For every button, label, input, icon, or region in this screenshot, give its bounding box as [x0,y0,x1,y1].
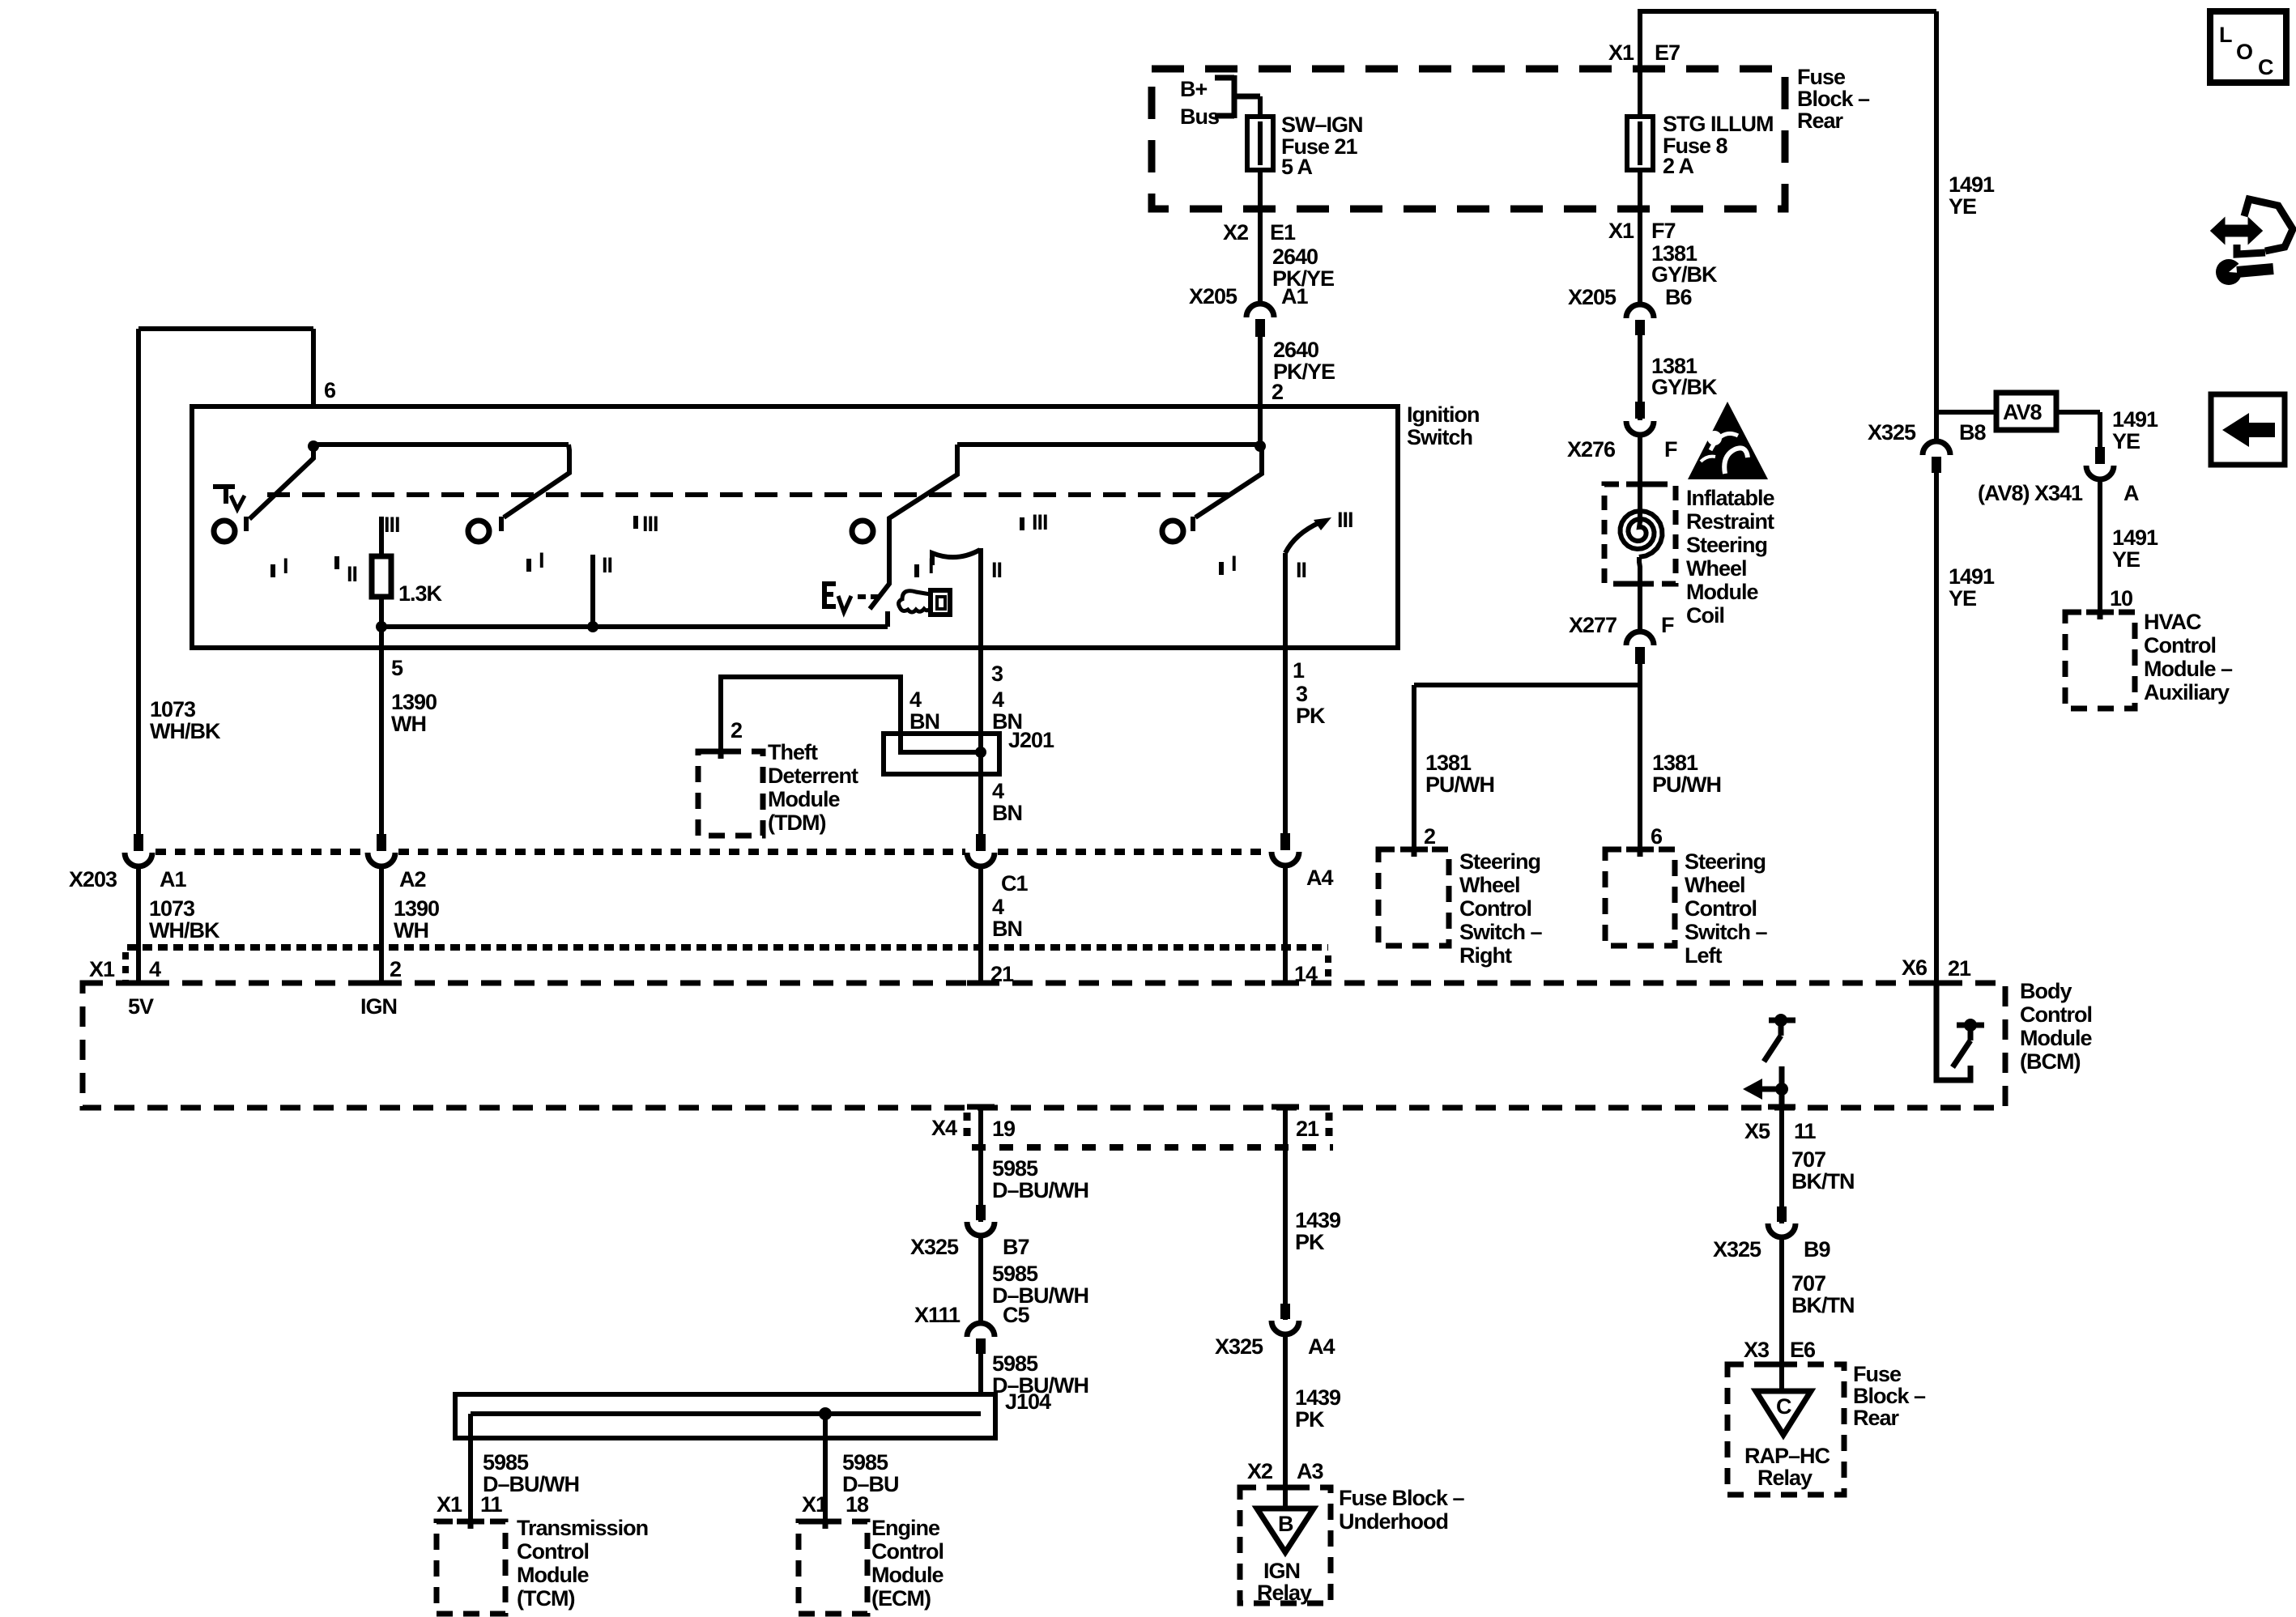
svg-text:(BCM): (BCM) [2020,1049,2080,1074]
steering wheel control switch right dashed box [1378,849,1449,946]
svg-text:X325: X325 [1868,420,1916,445]
svg-text:1390: 1390 [394,896,439,921]
connector (AV8) X341 A (stub + cup) [2086,447,2114,479]
wire entry ticks at module boxes [125,484,2114,1529]
svg-text:5: 5 [391,656,403,680]
svg-text:X1: X1 [1608,219,1634,243]
position marks sw3 [917,510,1048,582]
svg-text:WH: WH [394,918,428,943]
svg-text:Rear: Rear [1797,109,1844,133]
svg-text:2: 2 [390,957,401,981]
svg-text:X6: X6 [1902,955,1928,980]
svg-text:Relay: Relay [1757,1466,1813,1490]
svg-text:2: 2 [731,718,742,743]
connector X325 A4 (stub + cup) [1272,1304,1299,1334]
wire fuse21 to X205 [1258,170,1263,303]
contact circle sw2 [468,521,489,542]
svg-text:2 A: 2 A [1663,154,1694,178]
svg-text:IGN: IGN [360,994,397,1019]
svg-text:Engine: Engine [871,1516,940,1540]
label B+ Bus [1180,77,1219,129]
svg-text:6: 6 [1651,824,1663,849]
label 2640 PK/YE A1 [1189,245,1334,309]
connector X205 B6 (dome + stub) [1626,304,1654,335]
svg-text:X325: X325 [1713,1237,1761,1262]
svg-text:II: II [347,562,357,586]
wire TDM pin 2 branch [721,677,901,751]
connector X203 A2 (stub + cup) [368,834,395,866]
svg-text:C5: C5 [1003,1303,1029,1327]
svg-text:1491: 1491 [2112,407,2158,432]
LOC legend box [2210,11,2286,83]
svg-text:5985: 5985 [992,1262,1038,1286]
svg-text:5 A: 5 A [1281,155,1313,179]
svg-text:E1: E1 [1270,220,1296,245]
fuse STG ILLUM Fuse 8 [1627,69,1653,172]
label 5985 D-BU/WH (above J104) [992,1351,1088,1398]
label X1 11 (TCM) [437,1492,503,1517]
label X111 C5 [914,1303,1029,1327]
splice J201 [884,734,999,774]
svg-text:21: 21 [1948,956,1971,981]
label Theft Deterrent Module (TDM) [768,740,858,835]
svg-text:Control: Control [2144,633,2216,657]
svg-text:B6: B6 [1665,285,1692,309]
svg-text:II: II [991,558,1002,582]
wire A4 to BCM pin 14 [1283,864,1288,983]
svg-text:X4: X4 [931,1116,957,1140]
svg-text:J201: J201 [1008,728,1054,752]
svg-text:BK/TN: BK/TN [1791,1293,1855,1317]
label IGN Relay [1257,1559,1312,1605]
svg-text:C: C [1776,1394,1791,1419]
label 5985 D-BU/WH (below X4) [992,1156,1088,1202]
svg-text:Theft: Theft [768,740,818,764]
svg-text:(AV8) X341: (AV8) X341 [1978,481,2083,505]
svg-text:Auxiliary: Auxiliary [2144,680,2230,704]
label X276 F [1567,437,1677,462]
svg-text:3: 3 [991,662,1003,686]
svg-text:STG ILLUM: STG ILLUM [1663,112,1773,136]
svg-text:F: F [1661,613,1674,637]
svg-text:5985: 5985 [992,1351,1038,1376]
svg-text:II: II [602,553,612,577]
svg-text:1: 1 [1293,658,1305,683]
svg-text:Control: Control [1685,896,1757,921]
svg-text:Inflatable: Inflatable [1686,486,1775,510]
wire AV8 to X341 [2056,412,2100,447]
wire 1491 YE top feed from E7 riser to right edge riser [1638,11,1936,441]
svg-text:Module –: Module – [2144,657,2233,681]
label STG ILLUM Fuse 8 2 A [1663,112,1773,178]
svg-text:1491: 1491 [2112,526,2158,550]
svg-text:1491: 1491 [1949,564,1995,589]
svg-text:A1: A1 [160,867,186,891]
label Steering Wheel Control Switch - Left [1685,849,1768,968]
label Body Control Module (BCM) [2020,979,2092,1074]
fuse block underhood dashed box [1240,1487,1331,1603]
svg-text:III: III [1032,510,1048,534]
svg-text:Module: Module [2020,1026,2092,1050]
BCM internal switch (X5 output) [1743,1014,1795,1108]
svg-text:Transmission: Transmission [517,1516,648,1540]
connector X277 F (dome + stub) [1626,632,1654,664]
accessory glyph sw1 [213,487,245,509]
svg-text:Module: Module [517,1563,589,1587]
svg-text:1491: 1491 [1949,172,1995,197]
contact circle sw1 [214,521,235,542]
svg-text:Body: Body [2020,979,2072,1003]
svg-text:Steering: Steering [1459,849,1540,874]
svg-text:F7: F7 [1651,219,1676,243]
svg-text:1390: 1390 [391,690,437,714]
svg-text:Switch –: Switch – [1459,920,1543,944]
svg-text:Block –: Block – [1797,87,1870,111]
wire C1 to BCM pin 21 [978,866,983,983]
svg-text:D–BU/WH: D–BU/WH [992,1178,1088,1202]
svg-text:707: 707 [1791,1271,1825,1296]
svg-text:II: II [1296,558,1306,582]
connector row X1 dotted line [126,947,1328,985]
svg-text:Coil: Coil [1686,603,1724,628]
svg-text:Steering: Steering [1686,533,1767,557]
svg-text:Block –: Block – [1853,1384,1926,1408]
svg-text:Control: Control [2020,1002,2092,1027]
svg-text:X1: X1 [802,1492,828,1517]
svg-text:HVAC: HVAC [2144,610,2201,634]
fuse block rear (bottom) dashed box [1727,1364,1844,1495]
label Fuse Block - Rear (bottom) [1853,1362,1926,1430]
wire A1 to BCM pin 4 [136,866,141,983]
svg-text:Rear: Rear [1853,1406,1900,1430]
BCM internal switch (X6 feed) [1936,983,1984,1080]
ignition switch box [192,406,1398,648]
label 1381 PU/WH (right branch) [1425,751,1494,797]
svg-text:I: I [928,554,934,578]
label 1381 GY/BK (second) [1651,354,1718,399]
label 1390 WH (lower) [394,896,439,943]
wire C5 to J104 [978,1354,983,1397]
svg-text:GY/BK: GY/BK [1651,375,1718,399]
position marks sw1 [273,513,400,586]
svg-text:SW–IGN: SW–IGN [1281,113,1363,137]
svg-text:J104: J104 [1005,1389,1051,1414]
label 4 BN (TDM branch) [909,687,939,734]
resistor 1.3K [372,517,443,627]
svg-text:PU/WH: PU/WH [1425,772,1494,797]
connector X205 A1 (dome + stub) [1246,304,1274,337]
wire pin 3 to J201 [978,648,983,834]
label 1491 YE (HVAC) [2112,526,2158,572]
wire B+ bus to fuse 21 [1258,96,1263,118]
svg-text:E7: E7 [1655,40,1680,65]
label (AV8) X341 A [1978,481,2139,505]
fuse SW-IGN Fuse 21 [1247,117,1273,172]
wire switch feed rail 1 [313,442,569,447]
svg-text:Left: Left [1685,943,1723,968]
wire switch output rail [381,611,888,627]
svg-text:IGN: IGN [1263,1559,1300,1583]
label X205 B6 [1568,285,1692,309]
svg-text:4: 4 [992,895,1004,919]
HVAC control module auxiliary dashed box [2065,612,2135,709]
connector X111 C5 (dome + stub) [967,1323,995,1354]
svg-text:YE: YE [2112,547,2140,572]
svg-text:Control: Control [871,1539,944,1564]
wire branch to AV8 [1936,410,1996,415]
svg-text:O: O [2236,40,2252,64]
wire A2 to BCM pin 2 [379,866,384,983]
node junction 2640 feed [1254,440,1266,452]
svg-text:X111: X111 [914,1303,961,1327]
svg-text:WH/BK: WH/BK [149,918,220,943]
svg-text:X277: X277 [1569,613,1617,637]
svg-text:X3: X3 [1744,1338,1770,1362]
label X2 A3 [1247,1459,1323,1483]
svg-text:X325: X325 [1215,1334,1263,1359]
label 4 BN (below C1) [992,895,1022,941]
wire A4 to fuse block underhood [1283,1334,1288,1508]
svg-text:X203: X203 [69,867,117,891]
svg-text:F: F [1664,437,1677,462]
svg-text:X2: X2 [1223,220,1248,245]
svg-text:1439: 1439 [1295,1385,1341,1410]
svg-text:PK: PK [1296,704,1326,728]
wire J104 to ECM [823,1414,828,1521]
wire BCM X4-19 to X325 B7 [978,1108,983,1222]
svg-text:I: I [539,548,544,572]
svg-text:B8: B8 [1959,420,1986,445]
svg-text:A: A [2123,481,2139,505]
connector row X203 dotted line [155,849,1268,855]
svg-text:C1: C1 [1001,871,1028,896]
svg-text:WH/BK: WH/BK [150,719,221,743]
svg-text:2640: 2640 [1273,338,1318,362]
switch wiper sw4 [1193,445,1262,531]
sw4 spring return arrow to III [1285,517,1331,553]
svg-text:Restraint: Restraint [1686,509,1774,534]
svg-text:X205: X205 [1568,285,1617,309]
label 1073 WH/BK (lower) [149,896,220,943]
label Ignition Switch [1407,402,1479,449]
svg-text:X205: X205 [1189,284,1237,309]
svg-text:B+: B+ [1180,77,1207,101]
label 1439 PK (upper) [1295,1208,1341,1254]
wire B7 to X111 C5 [978,1235,983,1321]
label 2640 PK/YE 2 [1272,338,1335,404]
label X1 row pins [89,957,1318,986]
label Transmission Control Module (TCM) [517,1516,648,1611]
svg-text:X5: X5 [1744,1119,1770,1143]
svg-text:1381: 1381 [1425,751,1472,775]
wire X277 down to split junction [1638,664,1642,852]
svg-text:E6: E6 [1790,1338,1816,1362]
connector X203 A1 (stub + cup) [125,834,152,866]
svg-text:Right: Right [1459,943,1512,968]
label 5V IGN [128,994,397,1019]
power flow icon (arrows + wrench) [2212,199,2293,285]
svg-text:Ignition: Ignition [1407,402,1479,427]
label X203 A1 A2 C1 A4 [69,866,1333,896]
svg-text:1073: 1073 [150,697,196,721]
svg-text:6: 6 [324,378,336,402]
svg-text:Relay: Relay [1257,1581,1312,1605]
connector X276 F (stub + cup) [1626,402,1654,435]
svg-text:B9: B9 [1804,1237,1830,1262]
svg-text:(TCM): (TCM) [517,1586,574,1611]
label 1073 WH/BK (upper) [150,697,221,743]
connector X203 C1 (stub + cup) [967,834,995,866]
label Fuse Block - Rear (top right of box) [1797,65,1870,133]
position marks sw4 [1221,508,1353,582]
wire fuse8 to X205 B6 [1638,170,1642,304]
svg-text:L: L [2219,23,2232,47]
label X1 E7 [1608,40,1680,65]
connector X325 B8 (dome + stub) [1923,441,1950,473]
svg-text:1381: 1381 [1652,751,1698,775]
svg-text:Fuse: Fuse [1797,65,1846,89]
svg-text:X1: X1 [437,1492,462,1517]
label X1 18 (ECM) [802,1492,869,1517]
label X6 21 [1902,955,1971,981]
svg-text:BN: BN [992,801,1022,825]
svg-text:Wheel: Wheel [1686,556,1747,581]
svg-text:Wheel: Wheel [1459,873,1520,897]
key icon [899,590,950,615]
label Inflatable Restraint Steering Wheel Module Coil [1686,486,1775,628]
node junction resistor-rail [376,621,387,632]
label 4 BN (below J201) [992,779,1022,825]
svg-text:BK/TN: BK/TN [1791,1169,1855,1194]
svg-text:11: 11 [1794,1119,1817,1143]
wire branch to steering wheel control switch right [1414,685,1640,852]
svg-text:PK: PK [1295,1407,1325,1432]
svg-text:PU/WH: PU/WH [1652,772,1721,797]
label 1491 YE (right mid) [1949,564,1995,611]
svg-text:21: 21 [1296,1117,1319,1141]
label 1390 WH (upper) [391,690,437,736]
node junction sw1 pivot [308,440,319,452]
switch wiper sw2 [501,445,569,531]
svg-text:AV8: AV8 [2003,400,2043,424]
key linkage glyph Ev [824,584,879,612]
wire sw2 position II contact [590,555,595,627]
svg-text:Switch: Switch [1407,425,1472,449]
AV8 box [1996,393,2056,430]
label X325 B8 [1868,420,1986,445]
label pin 3 / 4 BN [991,662,1022,734]
svg-text:A4: A4 [1306,866,1333,890]
contact circle sw3 [852,521,873,542]
svg-text:2: 2 [1272,380,1283,404]
svg-text:B7: B7 [1003,1235,1029,1259]
wire pin 6 loop (ignition to X203 A1) [138,329,313,834]
svg-text:Underhood: Underhood [1339,1509,1448,1534]
svg-text:Module: Module [871,1563,944,1587]
wire B6 to X276 [1638,335,1642,420]
label Engine Control Module (ECM) [871,1516,944,1611]
SIR warning triangle symbol [1688,402,1768,479]
steering wheel control switch left dashed box [1605,849,1675,946]
svg-text:2: 2 [1424,824,1435,849]
svg-text:5985: 5985 [842,1450,888,1474]
label 1491 YE (at AV8) [2112,407,2158,453]
svg-text:3: 3 [1296,682,1308,706]
svg-text:X2: X2 [1247,1459,1272,1483]
connector X325 B7 (stub + cup) [967,1205,995,1236]
wire pin 5 to X203 A2 [379,627,384,834]
svg-text:C: C [2258,55,2273,79]
svg-text:YE: YE [2112,429,2140,453]
wire X325 B8 down to BCM X6 21 [1934,473,1939,983]
svg-text:BN: BN [909,709,939,734]
svg-text:A4: A4 [1308,1334,1335,1359]
label X277 F [1569,613,1674,637]
svg-text:Control: Control [1459,896,1531,921]
svg-text:4: 4 [992,687,1004,712]
svg-text:5985: 5985 [483,1450,529,1474]
connector X203 A4 (stub + cup) [1272,833,1299,866]
svg-text:5V: 5V [128,994,154,1019]
label pin 1 / 3 PK [1293,658,1326,728]
connector row X4 dotted line [967,1113,1333,1147]
label SW-IGN Fuse 21 5 A [1281,113,1363,179]
svg-text:PK: PK [1295,1230,1325,1254]
label X3 E6 [1744,1338,1816,1362]
wire pin 1 to X203 A4 [1283,648,1288,833]
label X325 A4 [1215,1334,1335,1359]
svg-text:WH: WH [391,712,426,736]
label Steering Wheel Control Switch - Right [1459,849,1543,968]
IGN relay triangle B [1257,1508,1314,1552]
svg-text:I: I [1231,551,1237,576]
svg-text:(TDM): (TDM) [768,811,825,835]
label X2 E1 [1223,220,1296,245]
label X1 F7 [1608,219,1676,243]
wire switch feed rail 2 [957,442,1260,447]
switch wiper sw1 [246,445,313,531]
engine control module dashed box [799,1521,867,1614]
svg-text:BN: BN [992,917,1022,941]
svg-text:5985: 5985 [992,1156,1038,1181]
wire sw4 position II contact (pin 1) [1283,553,1288,650]
B+ Bus bar symbol [1215,75,1260,118]
svg-text:11: 11 [480,1492,503,1517]
svg-text:A1: A1 [1281,284,1308,309]
wire X276 to coil box [1638,435,1642,523]
svg-text:1073: 1073 [149,896,195,921]
wire X341 to HVAC [2098,479,2102,612]
label 5985 D-BU (ECM) [842,1450,899,1496]
svg-text:III: III [642,512,658,536]
svg-text:I: I [283,554,288,578]
wire coil to X277 [1639,557,1640,632]
label RAP-HC Relay [1744,1444,1830,1490]
label 1381 PU/WH (left branch) [1652,751,1721,797]
label X325 B9 [1713,1237,1830,1262]
splice J104 [455,1394,995,1438]
svg-text:III: III [1337,508,1353,532]
fuse block rear (top) dashed box [1152,69,1785,209]
inflatable restraint coil dashed box [1604,484,1676,584]
label 5985 D-BU/WH (mid) [992,1262,1088,1308]
label 1381 GY/BK [1651,241,1718,287]
svg-text:18: 18 [846,1492,869,1517]
svg-text:1439: 1439 [1295,1208,1341,1232]
svg-text:4: 4 [909,687,922,712]
label 707 BK/TN (lower) [1791,1271,1855,1317]
label 1491 YE (top right) [1949,172,1995,219]
